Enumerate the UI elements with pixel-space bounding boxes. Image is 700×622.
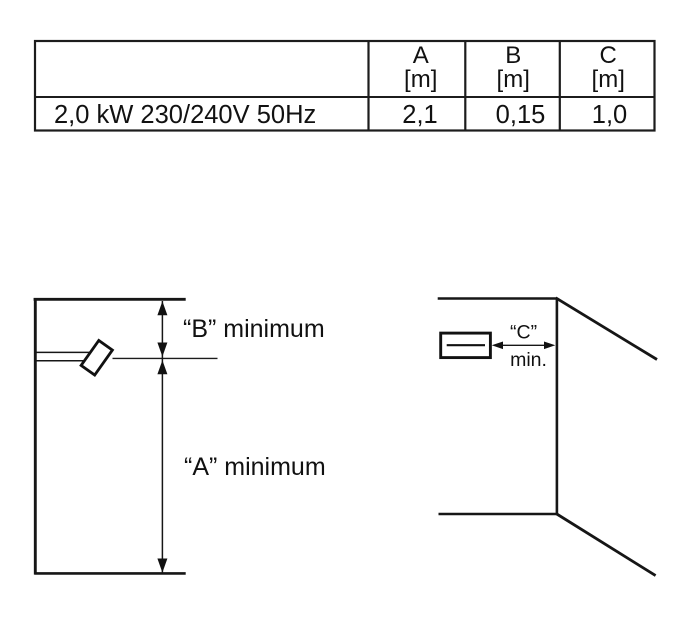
svg-text:A: A xyxy=(413,42,429,69)
svg-text:“A” minimum: “A” minimum xyxy=(184,453,326,481)
svg-text:[m]: [m] xyxy=(404,66,437,93)
svg-text:C: C xyxy=(600,42,617,69)
svg-text:“B” minimum: “B” minimum xyxy=(183,315,325,343)
svg-text:[m]: [m] xyxy=(592,66,625,93)
svg-text:0,15: 0,15 xyxy=(496,101,546,129)
svg-text:min.: min. xyxy=(510,349,547,371)
svg-text:B: B xyxy=(505,42,521,69)
svg-text:2,0 kW 230/240V 50Hz: 2,0 kW 230/240V 50Hz xyxy=(54,101,316,129)
svg-text:2,1: 2,1 xyxy=(402,101,437,129)
svg-text:[m]: [m] xyxy=(497,66,530,93)
svg-text:1,0: 1,0 xyxy=(592,101,627,129)
svg-text:“C”: “C” xyxy=(510,322,537,344)
